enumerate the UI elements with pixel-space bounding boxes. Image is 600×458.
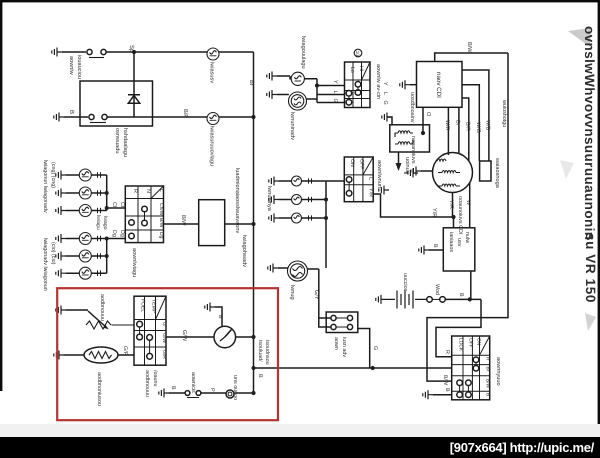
- ground voltage regulator: [419, 246, 429, 255]
- circled 10 marker: [354, 49, 362, 57]
- wire light switch to Y/R line: [373, 194, 453, 217]
- svg-text:lwiagu: lwiagu: [95, 215, 101, 230]
- ground G2 battery-B: [54, 113, 64, 122]
- middle lamp bus: [325, 181, 327, 268]
- svg-text:osnwuadu: osnwuadu: [114, 128, 121, 154]
- svg-text:Y/R: Y/R: [431, 208, 438, 217]
- wire junction to voltage regulator: [453, 217, 455, 228]
- svg-text:B: B: [257, 374, 263, 378]
- dimmer switch box: [345, 62, 371, 108]
- svg-text:W/B: W/B: [485, 120, 491, 131]
- svg-text:G: G: [382, 101, 388, 105]
- svg-text:ooaunoiuvs CDI: ooaunoiuvs CDI: [457, 196, 463, 234]
- svg-text:uuccios: uuccios: [402, 273, 408, 292]
- svg-text:lwiasuruuovlagu: lwiasuruuovlagu: [209, 126, 216, 166]
- svg-text:W/G: W/G: [475, 122, 481, 133]
- svg-text:B/R: B/R: [182, 109, 189, 118]
- svg-text:Dg: Dg: [119, 230, 125, 237]
- svg-text:FUEL: FUEL: [140, 299, 146, 312]
- pilot switch contacts: [169, 392, 185, 394]
- turn signal lamp 4: [79, 233, 91, 245]
- svg-text:aodbnouuu: aodbnouuu: [144, 370, 150, 397]
- svg-text:Ch: Ch: [119, 202, 125, 209]
- spark plug arrow: [396, 163, 402, 171]
- ground ignition coil: [387, 117, 392, 125]
- svg-text:lwago: lwago: [102, 216, 108, 230]
- svg-text:aownlwnun: aownlwnun: [376, 160, 383, 188]
- svg-text:HI: HI: [358, 66, 364, 71]
- svg-text:L: L: [158, 189, 164, 192]
- svg-text:ON: ON: [349, 159, 355, 167]
- svg-text:Br: Br: [485, 367, 491, 372]
- svg-text:B: B: [170, 386, 176, 390]
- wire W magneto down: [469, 183, 471, 228]
- svg-text:hshdaalagu: hshdaalagu: [122, 128, 129, 157]
- wire Br to magneto: [458, 107, 460, 154]
- svg-text:G/Y: G/Y: [313, 290, 320, 300]
- wire brake block to bus: [358, 329, 370, 369]
- ground fuel sender: [56, 306, 66, 315]
- ignition switch contacts: [473, 357, 479, 363]
- small ground near light switch: [379, 186, 389, 195]
- ground turn lamp 1: [56, 171, 66, 180]
- ground tail lamp: [268, 264, 278, 273]
- gauge connector box: [134, 296, 166, 365]
- magneto coil 2: [438, 171, 460, 173]
- svg-text:su VR 150: su VR 150: [583, 233, 598, 303]
- svg-text:aodbnouuu: aodbnouuu: [99, 294, 105, 321]
- ground meter: [205, 303, 215, 312]
- headlamp merge bus: [316, 79, 318, 103]
- svg-text:Y/R: Y/R: [448, 200, 454, 209]
- headlamp small: [291, 72, 304, 85]
- bottom attribution bar: [0, 437, 600, 458]
- svg-text:luadmionaiaosslwuavaonv: luadmionaiaosslwuavaonv: [234, 168, 241, 234]
- svg-text:aown: aown: [333, 337, 339, 350]
- battery plates: [386, 291, 426, 309]
- wire gauge to meter G/W: [166, 336, 214, 338]
- main vertical bus left: [253, 52, 255, 393]
- svg-text:B/W: B/W: [466, 42, 473, 53]
- svg-text:G: G: [332, 99, 338, 103]
- svg-text:noganoiuvs: noganoiuvs: [410, 136, 416, 164]
- svg-text:O: O: [425, 112, 431, 117]
- dash lamp 1: [292, 176, 302, 186]
- svg-text:nulw: nulw: [464, 232, 470, 243]
- svg-text:aownlw av-cin: aownlw av-cin: [375, 64, 382, 99]
- wire W/R to magneto: [447, 107, 449, 155]
- turn switch contact circles: [129, 220, 135, 226]
- wire Y/R magneto down: [452, 193, 454, 218]
- connector ticks dash lamps: [309, 178, 312, 220]
- pulser coil box: [480, 161, 491, 181]
- engine stop switch contacts: [87, 49, 92, 54]
- svg-text:G/W: G/W: [161, 333, 167, 343]
- ground G1 engine-stop switch: [52, 48, 62, 57]
- wire L2 to bus: [219, 116, 254, 118]
- svg-text:Ch: Ch: [111, 202, 117, 209]
- wire CDI to ignition coil O: [422, 107, 424, 133]
- svg-text:ovnslwWhvovvnsuuruuaunonin: ovnslwWhvovvnsuuruuaunonin: [582, 26, 597, 240]
- ground spark plug: [408, 169, 418, 178]
- svg-text:lwiagouulagu: lwiagouulagu: [300, 36, 307, 69]
- svg-text:R: R: [485, 357, 491, 361]
- scan smudge small right: [560, 160, 574, 179]
- svg-text:lwnuninadv: lwnuninadv: [289, 112, 296, 140]
- ignition coil box: [390, 125, 430, 152]
- light switch box: [344, 157, 373, 202]
- svg-text:R: R: [444, 350, 450, 354]
- svg-text:B/W: B/W: [485, 379, 491, 389]
- svg-text:/oaunu: /oaunu: [152, 370, 158, 387]
- node junction at diode top: [132, 50, 136, 54]
- bus of left turn lamps lower: [106, 239, 108, 274]
- svg-text:aownlw: aownlw: [68, 56, 75, 76]
- gauge contacts: [137, 321, 143, 327]
- ground turn lamp 5: [56, 252, 66, 261]
- svg-text:Dg: Dg: [158, 232, 164, 239]
- svg-text:(cio) (cio): (cio) (cio): [50, 242, 56, 265]
- diode D1: [128, 52, 140, 117]
- turn signal lamp 2: [79, 187, 91, 199]
- bus of left turn lamps: [106, 175, 108, 211]
- svg-text:G: G: [372, 346, 378, 350]
- svg-text:iusn adv: iusn adv: [341, 337, 347, 357]
- svg-text:lwiagonun lwiagonadv: lwiagonun lwiagonadv: [42, 160, 48, 213]
- scan smudge mid right: [585, 313, 596, 331]
- svg-text:aownicis: aownicis: [190, 372, 196, 393]
- svg-text:B/W: B/W: [180, 215, 187, 226]
- svg-text:aownnyuuo: aownnyuuo: [495, 357, 501, 386]
- fuel sender variable resistor: [66, 309, 88, 311]
- ground headlamp 2: [267, 90, 277, 99]
- page top edge line: [0, 0, 600, 2]
- ground dash lamp 3: [269, 214, 279, 223]
- ground ignition switch: [423, 390, 433, 399]
- red annotation rectangle: [57, 288, 278, 420]
- svg-text:B: B: [485, 393, 491, 396]
- wire regulator to bus: [225, 223, 254, 225]
- svg-text:Y: Y: [332, 80, 338, 84]
- svg-text:uns ouuoo: uns ouuoo: [232, 375, 238, 400]
- svg-text:B: B: [458, 293, 464, 297]
- svg-text:P: P: [209, 388, 215, 392]
- ground turn lamp 2: [56, 189, 66, 198]
- wire Dg to switch: [107, 238, 126, 240]
- svg-text:L: L: [382, 92, 388, 95]
- ground headlamp 1: [267, 72, 277, 81]
- node Y/R junction: [451, 215, 455, 219]
- svg-text:Ch/W: Ch/W: [158, 203, 164, 216]
- wire bus to light switch: [326, 180, 344, 182]
- wire B/R to magneto: [462, 98, 469, 161]
- connector ticks left lamps: [98, 172, 101, 276]
- turn signal lamp 5: [79, 250, 91, 262]
- dash lamp 3: [292, 213, 302, 223]
- svg-text:aownlwiagu: aownlwiagu: [131, 248, 138, 277]
- scan smudge triangle top right: [568, 28, 591, 47]
- scan shade band above bar: [0, 424, 600, 437]
- svg-text:lwnuninya: lwnuninya: [266, 186, 273, 212]
- meter circle: [214, 326, 236, 348]
- light switch contacts: [346, 177, 352, 183]
- svg-text:iouauciou: iouauciou: [76, 55, 83, 79]
- ground turn lamp 4: [56, 234, 66, 243]
- turn signal lamp 1: [79, 169, 91, 181]
- svg-text:W/R: W/R: [444, 120, 450, 131]
- wire meter to bus: [236, 336, 254, 338]
- long B/W bus: [254, 367, 452, 369]
- svg-text:ianiaaos: ianiaaos: [448, 232, 454, 252]
- wire Sp to lamp L1: [106, 51, 207, 53]
- lamp L1 brake: [207, 48, 219, 60]
- svg-text:B/W: B/W: [158, 218, 164, 228]
- svg-text:wuioshotgu: wuioshotgu: [501, 99, 507, 127]
- ground magneto: [411, 167, 421, 176]
- temp sender oval: [64, 354, 84, 356]
- svg-text:G/W: G/W: [181, 330, 188, 342]
- wire W/G to pulser: [462, 85, 479, 161]
- svg-text:L: L: [332, 91, 338, 94]
- svg-text:10: 10: [354, 51, 360, 57]
- voltage regulator box: [443, 228, 475, 271]
- svg-text:B: B: [68, 110, 75, 114]
- turn signal lamp 3: [79, 205, 91, 217]
- svg-text:(cng) (cng): (cng) (cng): [50, 162, 56, 188]
- ground dash lamp 1: [269, 177, 279, 186]
- wire switch to regulator: [164, 223, 199, 225]
- ground turn lamp 6: [56, 269, 66, 278]
- svg-text:TEMP: TEMP: [151, 299, 157, 314]
- node bus-L2: [251, 115, 255, 119]
- headlamp double filament: [289, 92, 307, 110]
- ground CDI: [400, 80, 410, 89]
- ground temp sender: [54, 351, 64, 360]
- magneto flywheel circle: [433, 153, 473, 193]
- page right edge strip: [598, 0, 600, 437]
- wire G2 to contacts: [64, 116, 88, 118]
- svg-text:Y/R: Y/R: [368, 188, 374, 197]
- wires to dimmer Y L G: [317, 86, 345, 103]
- svg-text:usv: usv: [456, 238, 462, 247]
- pilot lamp: [226, 390, 234, 398]
- ground turn lamp 3: [56, 206, 66, 215]
- svg-text:OFF: OFF: [359, 159, 365, 169]
- svg-text:B: B: [432, 244, 438, 248]
- relay contacts in box: [89, 114, 94, 119]
- svg-text:waiaosnoga: waiaosnoga: [494, 157, 501, 189]
- svg-text:LOCK: LOCK: [458, 338, 464, 352]
- turn signal lamp 6: [79, 267, 91, 279]
- wire Ch to switch: [107, 207, 126, 209]
- tail lamp double filament: [288, 261, 308, 281]
- wire to lamp L2: [107, 116, 207, 118]
- corner tick bottom left: [6, 431, 9, 433]
- page left edge strip: [0, 0, 2, 391]
- svg-text:lwiasusv: lwiasusv: [209, 62, 216, 83]
- svg-text:Br: Br: [455, 120, 461, 126]
- spark plug lead: [398, 152, 400, 163]
- svg-text:Br: Br: [248, 80, 254, 86]
- dimmer contacts: [355, 82, 361, 88]
- right main bus: [427, 53, 508, 381]
- svg-text:L: L: [368, 177, 374, 180]
- svg-text:G/R: G/R: [161, 350, 167, 359]
- lamp L2 tail: [207, 113, 219, 125]
- svg-text:G: G: [161, 322, 167, 326]
- svg-text:lwiagohwadv: lwiagohwadv: [241, 235, 248, 267]
- rectifier box: [80, 81, 153, 126]
- svg-text:lwnug: lwnug: [289, 285, 296, 300]
- svg-text:Wod: Wod: [434, 284, 440, 295]
- ground dash lamp 2: [269, 195, 279, 204]
- fuse holder: [427, 297, 433, 303]
- svg-text:uosdbnoainv: uosdbnoainv: [409, 92, 415, 123]
- lighting regulator box: [199, 200, 225, 246]
- turn signal switch box: [125, 186, 163, 243]
- svg-text:B/R: B/R: [465, 122, 471, 131]
- wire vr to fuse junction: [470, 271, 472, 299]
- svg-text:aodbnoniusou: aodbnoniusou: [96, 372, 102, 406]
- svg-text:G/R: G/R: [122, 346, 128, 356]
- svg-text:lwiagonadv lwiagonun: lwiagonadv lwiagonun: [42, 238, 48, 291]
- svg-text:ON: ON: [476, 338, 482, 346]
- ignition coil windings: [395, 131, 413, 144]
- svg-text:naov CDI: naov CDI: [435, 72, 442, 98]
- magneto coil 3: [438, 184, 460, 186]
- svg-text:N: N: [145, 189, 151, 193]
- wire pilot to bus: [235, 392, 254, 394]
- wire G1 to stop switch: [62, 51, 86, 53]
- magneto coil 1: [437, 159, 446, 161]
- ground battery: [376, 295, 386, 304]
- wire to ignition switch R: [436, 299, 481, 356]
- CDI box: [417, 62, 463, 108]
- svg-text:R: R: [132, 189, 138, 193]
- wire L1 to bus: [219, 51, 254, 53]
- ignition switch box: [452, 336, 490, 400]
- svg-text:OFF: OFF: [468, 338, 474, 348]
- svg-text:Lo: Lo: [349, 67, 355, 73]
- brake switch block: [326, 312, 358, 333]
- dash lamp 2: [292, 195, 302, 205]
- wire fuse to junction: [445, 298, 481, 300]
- svg-text:B: B: [444, 388, 450, 392]
- svg-text:Dg: Dg: [111, 230, 117, 237]
- ground pilot lamp: [159, 389, 169, 398]
- svg-text:Y: Y: [382, 82, 388, 86]
- wire tail lamp down to brake switches: [319, 269, 331, 327]
- svg-text:B: B: [217, 315, 223, 319]
- wire CDI top B/W: [435, 53, 508, 62]
- wire W/B to pulser: [462, 70, 489, 161]
- svg-text:B/W: B/W: [442, 375, 448, 386]
- svg-text:isouluad/: isouluad/: [257, 340, 263, 362]
- svg-text:isoudnsou: isoudnsou: [264, 340, 270, 365]
